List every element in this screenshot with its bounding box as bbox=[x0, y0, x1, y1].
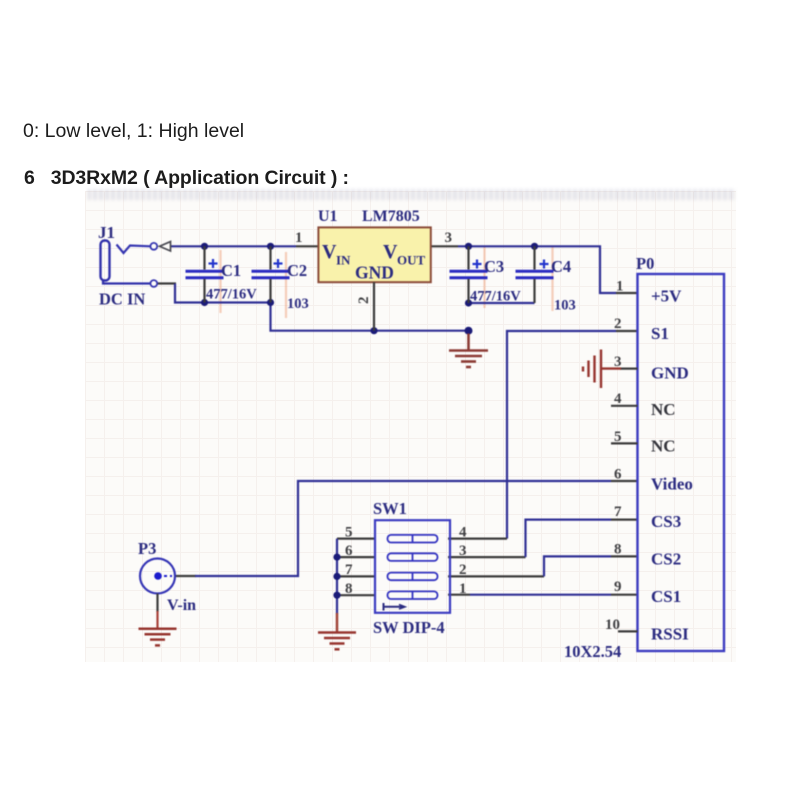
svg-text:C4: C4 bbox=[551, 257, 571, 276]
svg-text:4: 4 bbox=[614, 391, 622, 407]
svg-text:5: 5 bbox=[345, 525, 353, 541]
svg-text:RSSI: RSSI bbox=[651, 625, 689, 644]
label U1 bbox=[318, 208, 338, 225]
svg-text:2: 2 bbox=[356, 297, 372, 305]
svg-text:GND: GND bbox=[651, 364, 689, 383]
label P3 bbox=[138, 539, 156, 558]
svg-text:9: 9 bbox=[614, 579, 622, 595]
svg-text:C2: C2 bbox=[287, 261, 307, 280]
P0 net name NC pin5 bbox=[651, 437, 676, 456]
U1 GND text bbox=[355, 263, 394, 283]
ground symbol below C3 bbox=[449, 334, 488, 368]
wire ground rail to C3 ground junction bbox=[271, 303, 469, 331]
svg-text:V-in: V-in bbox=[167, 597, 196, 614]
svg-text:V: V bbox=[383, 241, 398, 263]
P0 net name CS3 bbox=[651, 512, 681, 531]
svg-text:8: 8 bbox=[614, 542, 622, 558]
svg-text:5: 5 bbox=[614, 429, 622, 445]
svg-text:OUT: OUT bbox=[397, 253, 426, 268]
svg-text:P3: P3 bbox=[138, 539, 156, 558]
capacitor C2 bbox=[252, 246, 290, 302]
wire U1 pin 3 to P0 pin 1 bbox=[431, 246, 638, 293]
svg-text:103: 103 bbox=[554, 298, 576, 314]
svg-text:CS2: CS2 bbox=[651, 550, 681, 569]
svg-text:SW DIP-4: SW DIP-4 bbox=[373, 618, 445, 637]
label C4 bbox=[551, 257, 571, 276]
label J1 bbox=[98, 223, 115, 242]
SW1 slider element 2 bbox=[388, 553, 438, 561]
P0 pin number 1 bbox=[616, 279, 624, 295]
U1 VIN text bbox=[322, 241, 351, 268]
pin number 2 of U1 bbox=[356, 297, 372, 305]
switch SW1 body bbox=[375, 520, 450, 613]
svg-text:4: 4 bbox=[459, 525, 467, 541]
P0 pin number 6 bbox=[614, 467, 622, 483]
guide line artifact near C1 bbox=[219, 250, 221, 313]
svg-text:U1: U1 bbox=[318, 208, 338, 225]
P0 pin 4 stub bbox=[611, 405, 638, 407]
svg-text:NC: NC bbox=[651, 400, 676, 419]
wire CS2 from SW1 pin 2 to P0 pin 8 bbox=[448, 556, 638, 576]
svg-text:CS1: CS1 bbox=[651, 587, 681, 606]
power ground symbol at P0 pin 3 bbox=[583, 350, 638, 389]
P0 pin number 10 bbox=[605, 617, 620, 633]
svg-text:V: V bbox=[322, 241, 337, 263]
C2 plus sign bbox=[274, 259, 283, 268]
svg-text:+5V: +5V bbox=[651, 287, 682, 306]
wire CS1 from SW1 pin 1 to P0 pin 9 bbox=[448, 594, 638, 596]
value 103 for C2 bbox=[287, 296, 309, 312]
J1 tip terminal circle bbox=[150, 243, 157, 250]
SW1 slider element 1 bbox=[388, 535, 438, 543]
label P0 bbox=[636, 254, 654, 273]
junction dots top rail bbox=[201, 243, 538, 250]
wire CS3 from SW1 pin 3 to P0 pin 7 bbox=[448, 520, 638, 558]
C1 plus sign bbox=[209, 259, 218, 268]
J1 switch arrow contact bbox=[160, 242, 171, 251]
capacitor C3 bbox=[450, 246, 488, 303]
label C1 bbox=[221, 261, 241, 280]
P0 net name S1 bbox=[651, 324, 669, 343]
svg-text:3: 3 bbox=[445, 230, 453, 246]
P0 pin number 2 bbox=[614, 316, 622, 332]
connector P3 circle bbox=[140, 559, 175, 594]
pin number 3 of U1 bbox=[445, 230, 453, 246]
svg-text:NC: NC bbox=[651, 437, 676, 456]
capacitor C1 bbox=[186, 246, 224, 302]
svg-text:3: 3 bbox=[459, 543, 467, 559]
svg-text:J1: J1 bbox=[98, 223, 115, 242]
P0 net name Video bbox=[651, 475, 693, 494]
svg-text:7: 7 bbox=[345, 562, 353, 578]
svg-text:2: 2 bbox=[459, 562, 467, 578]
P0 net name RSSI bbox=[651, 625, 689, 644]
capacitor C4 bbox=[516, 246, 554, 303]
svg-text:10X2.54: 10X2.54 bbox=[564, 642, 621, 661]
P0 pin number 4 bbox=[614, 391, 622, 407]
label 10X2.54 bbox=[564, 642, 621, 661]
wire DC IN lower contact to ground rail bbox=[157, 284, 271, 303]
svg-text:P0: P0 bbox=[636, 254, 654, 273]
svg-text:IN: IN bbox=[336, 253, 351, 268]
label DC IN bbox=[99, 290, 145, 309]
svg-text:477/16V: 477/16V bbox=[470, 289, 521, 305]
SW1 pin number 2 bbox=[459, 562, 467, 578]
ground symbol below P3 bbox=[139, 629, 177, 646]
svg-text:GND: GND bbox=[355, 263, 394, 283]
P0 net name +5V bbox=[651, 287, 682, 306]
J1 sleeve terminal circle bbox=[150, 280, 157, 287]
P0 pin 5 stub bbox=[611, 442, 638, 444]
SW1 pin number 1 bbox=[459, 581, 467, 597]
value 103 for C4 bbox=[554, 298, 576, 314]
P0 pin 10 stub bbox=[618, 630, 638, 632]
SW1 pin number 4 bbox=[459, 525, 467, 541]
svg-text:S1: S1 bbox=[651, 324, 669, 343]
C3 plus sign bbox=[473, 260, 482, 269]
svg-text:1: 1 bbox=[295, 230, 303, 246]
SW1 pin number 5 bbox=[345, 525, 353, 541]
guide line artifact near C4 bbox=[551, 247, 553, 311]
SW1 pin number 6 bbox=[345, 543, 353, 559]
SW1 pin number 3 bbox=[459, 543, 467, 559]
P0 pin number 7 bbox=[614, 504, 622, 520]
label SW1 bbox=[373, 499, 407, 518]
label SW DIP-4 bbox=[373, 618, 445, 637]
svg-text:SW1: SW1 bbox=[373, 499, 407, 518]
schematic sheet with grid bbox=[85, 191, 736, 662]
svg-text:CS3: CS3 bbox=[651, 512, 681, 531]
P0 pin number 9 bbox=[614, 579, 622, 595]
ground symbol below SW1 bbox=[318, 613, 356, 649]
guide line artifact near C3 bbox=[483, 247, 485, 308]
svg-text:103: 103 bbox=[287, 296, 309, 312]
wire top rail from J1 to U1 pin 1 bbox=[170, 245, 318, 247]
connector J1 barrel bbox=[101, 241, 151, 284]
svg-text:C3: C3 bbox=[484, 257, 504, 276]
wire SW1 left pins common to ground bbox=[337, 539, 375, 614]
svg-text:8: 8 bbox=[345, 581, 353, 597]
svg-text:6: 6 bbox=[345, 543, 353, 559]
svg-text:1: 1 bbox=[616, 279, 624, 295]
value 477/16V for C3 bbox=[470, 289, 521, 305]
SW1 slider element 4 bbox=[388, 591, 438, 599]
value 477/16V for C1 bbox=[206, 287, 257, 303]
svg-text:477/16V: 477/16V bbox=[206, 287, 257, 303]
svg-text:3: 3 bbox=[614, 354, 622, 370]
svg-text:Video: Video bbox=[651, 475, 693, 494]
svg-text:2: 2 bbox=[614, 316, 622, 332]
junction dots ground rail bbox=[201, 299, 473, 335]
svg-text:10: 10 bbox=[605, 617, 620, 633]
svg-text:DC IN: DC IN bbox=[99, 290, 145, 309]
title line 1 bbox=[23, 120, 244, 143]
junction dots SW1 common bbox=[333, 554, 340, 599]
label C2 bbox=[287, 261, 307, 280]
P0 net name CS2 bbox=[651, 550, 681, 569]
wire S1 from P0 pin 2 to SW1 pin 4 bbox=[448, 331, 638, 539]
U1 VOUT text bbox=[383, 241, 426, 268]
svg-text:C1: C1 bbox=[221, 261, 241, 280]
label LM7805 bbox=[362, 208, 420, 225]
ghost text band artifact bbox=[88, 189, 736, 200]
guide line artifact near C2 bbox=[285, 252, 287, 318]
P0 net name CS1 bbox=[651, 587, 681, 606]
P3 center pin dot bbox=[154, 572, 172, 580]
title line 2 bbox=[24, 167, 349, 190]
wire Video from P3 to P0 pin 6 bbox=[176, 481, 638, 576]
J1 tip spring contact bbox=[117, 245, 151, 254]
svg-text:1: 1 bbox=[459, 581, 467, 597]
P0 pin number 3 bbox=[614, 354, 622, 370]
SW1 slider element 3 bbox=[388, 573, 438, 581]
SW1 pin number 8 bbox=[345, 581, 353, 597]
svg-text:6: 6 bbox=[614, 467, 622, 483]
svg-text:7: 7 bbox=[614, 504, 622, 520]
pin number 1 of U1 bbox=[295, 230, 303, 246]
svg-text:LM7805: LM7805 bbox=[362, 208, 420, 225]
U1 pin 2 lead bbox=[373, 282, 375, 331]
P3 ground lead bbox=[156, 594, 158, 629]
C4 plus sign bbox=[540, 260, 549, 269]
connector P0 body bbox=[638, 274, 725, 651]
regulator U1 body bbox=[318, 227, 430, 282]
SW1 pin number 7 bbox=[345, 562, 353, 578]
P0 net name NC pin4 bbox=[651, 400, 676, 419]
P0 pin number 5 bbox=[614, 429, 622, 445]
P0 pin number 8 bbox=[614, 542, 622, 558]
wire C3 C4 bottom rail bbox=[469, 302, 535, 304]
label C3 bbox=[484, 257, 504, 276]
label V-in bbox=[167, 597, 196, 614]
P0 net name GND bbox=[651, 364, 689, 383]
SW1 actuator mark bbox=[384, 603, 406, 611]
